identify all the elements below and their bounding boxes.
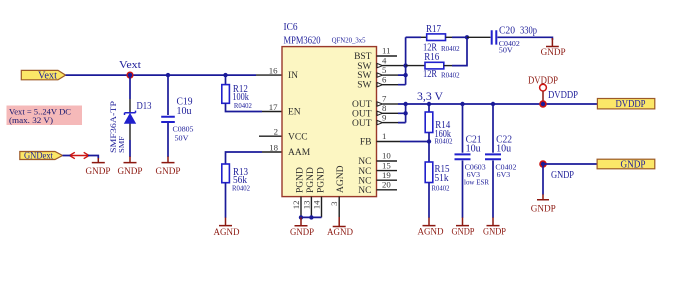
svg-text:16: 16 <box>269 65 278 75</box>
pin 1 FB <box>377 141 401 143</box>
pin 20 NC <box>377 189 398 191</box>
svg-text:AGND: AGND <box>214 227 240 237</box>
svg-text:IN: IN <box>288 71 298 81</box>
svg-text:GNDP: GNDP <box>290 227 314 237</box>
svg-text:13: 13 <box>301 200 311 209</box>
svg-text:GNDP: GNDP <box>86 166 111 176</box>
ground GNDP (PGND) <box>290 217 314 237</box>
pin 16 line <box>256 74 282 76</box>
svg-text:AGND: AGND <box>418 227 444 237</box>
svg-text:SW: SW <box>357 81 371 91</box>
wire D13 to ground <box>129 140 131 157</box>
svg-text:10: 10 <box>382 151 391 161</box>
svg-text:GNDP: GNDP <box>156 166 181 176</box>
node Vext <box>119 60 141 79</box>
pin 18 line <box>262 151 282 153</box>
ground GNDP (C20) <box>541 38 566 57</box>
resistor R12 <box>222 75 262 111</box>
pin 5 SW <box>383 74 399 76</box>
svg-text:D13: D13 <box>137 101 152 112</box>
wire PGND bus <box>301 216 322 218</box>
wire GNDext to ground <box>63 156 99 159</box>
svg-text:4: 4 <box>382 55 387 65</box>
ground AGND (R15) <box>418 218 444 237</box>
svg-text:OUT: OUT <box>352 119 372 129</box>
pin 8 OUT <box>383 112 399 114</box>
svg-text:Vext: Vext <box>119 60 141 71</box>
ground AGND (pin 3) <box>327 217 353 237</box>
svg-text:6V3: 6V3 <box>497 171 511 179</box>
port GNDP <box>597 159 655 170</box>
svg-text:R0402: R0402 <box>441 45 460 53</box>
wire OUT 3.3V rail <box>398 104 597 123</box>
pin 11 BST <box>377 55 398 57</box>
red double arrow on GNDext wire <box>70 152 90 158</box>
svg-text:SMF: SMF <box>118 136 126 153</box>
svg-text:BST: BST <box>354 52 372 62</box>
svg-text:SW: SW <box>357 71 371 81</box>
svg-text:GNDP: GNDP <box>551 170 574 181</box>
wire FB <box>400 141 429 143</box>
svg-text:R16: R16 <box>424 52 439 63</box>
svg-text:PGND: PGND <box>317 167 327 193</box>
svg-text:NC: NC <box>358 167 371 177</box>
wire Vext to D13 <box>129 75 131 99</box>
testpoint DVDDP <box>528 76 558 101</box>
svg-text:(max. 32 V): (max. 32 V) <box>9 115 53 125</box>
svg-text:IC6: IC6 <box>284 22 298 33</box>
junction R12 <box>223 73 227 77</box>
svg-text:GNDP: GNDP <box>452 227 475 237</box>
pin 2 stub <box>259 135 282 137</box>
svg-text:DVDDP: DVDDP <box>548 90 578 101</box>
bottom pins 12 13 14 PGND <box>291 197 322 218</box>
port GNDext <box>20 151 63 161</box>
svg-text:10u: 10u <box>177 106 192 117</box>
svg-text:GNDP: GNDP <box>483 227 506 237</box>
svg-text:Vext: Vext <box>38 70 57 81</box>
svg-text:51k: 51k <box>435 173 449 184</box>
svg-text:15: 15 <box>382 160 391 170</box>
pin 15 NC <box>377 170 398 172</box>
pin names bottom (rotated) <box>296 165 347 193</box>
svg-text:GNDext: GNDext <box>24 151 53 161</box>
svg-text:12: 12 <box>291 201 301 210</box>
pin 19 NC <box>377 179 398 181</box>
resistor R17 <box>406 24 467 54</box>
svg-text:14: 14 <box>312 200 322 209</box>
svg-text:AGND: AGND <box>327 227 353 237</box>
capacitor C20 <box>467 26 552 55</box>
svg-text:12R: 12R <box>423 69 437 80</box>
svg-text:VCC: VCC <box>288 132 308 142</box>
svg-text:PGND: PGND <box>306 167 316 193</box>
junction C19 <box>166 73 170 77</box>
svg-text:R0402: R0402 <box>234 102 252 110</box>
svg-text:10u: 10u <box>466 143 481 154</box>
IC IC6 MPM3620 body <box>282 22 377 197</box>
svg-text:3: 3 <box>329 201 339 206</box>
ground GNDP (D13) <box>118 157 143 177</box>
ground GNDP (right) <box>531 194 556 213</box>
node GNDP junction <box>539 160 574 181</box>
svg-text:EN: EN <box>288 108 301 118</box>
pin 10 NC <box>377 160 398 162</box>
svg-text:PGND: PGND <box>296 167 306 193</box>
svg-text:19: 19 <box>382 170 391 180</box>
ground GNDP (C22) <box>483 218 506 237</box>
capacitor C22 <box>485 102 517 218</box>
wire AAM to R13 <box>226 152 263 164</box>
junction R17/R16 <box>465 35 469 39</box>
ground GNDP (C21) <box>452 218 475 237</box>
resistor R13 <box>222 164 251 218</box>
capacitor C19 <box>161 75 194 157</box>
ground GNDP (C19) <box>156 157 181 177</box>
svg-text:50V: 50V <box>175 135 189 143</box>
pin 7 OUT <box>383 103 399 105</box>
node DVDDP <box>539 90 578 108</box>
info box Vext = 5..24V DC <box>7 106 83 126</box>
svg-text:SMF36A-TP: SMF36A-TP <box>109 100 118 153</box>
wire SW bus vertical <box>398 37 406 84</box>
svg-text:6: 6 <box>382 74 387 84</box>
pin names left <box>288 71 311 158</box>
svg-text:GNDP: GNDP <box>621 159 646 170</box>
svg-text:2: 2 <box>274 127 278 137</box>
svg-text:GNDP: GNDP <box>541 47 566 57</box>
pin names right <box>352 52 372 196</box>
port Vext <box>21 70 65 81</box>
pin 9 OUT <box>383 122 399 124</box>
svg-text:9: 9 <box>382 112 387 122</box>
pin 6 SW <box>383 84 399 86</box>
svg-text:AAM: AAM <box>288 148 311 158</box>
svg-text:R0402: R0402 <box>432 185 450 193</box>
svg-text:MPM3620: MPM3620 <box>284 35 321 46</box>
svg-text:R0402: R0402 <box>441 72 460 80</box>
svg-text:R17: R17 <box>426 24 441 35</box>
ground AGND (R13) <box>214 218 240 238</box>
svg-text:10u: 10u <box>496 143 511 154</box>
diode D13 <box>109 99 152 153</box>
svg-text:17: 17 <box>269 102 278 112</box>
svg-text:C20: C20 <box>499 26 515 37</box>
pin 17 line <box>262 111 282 113</box>
svg-text:GNDP: GNDP <box>531 204 556 214</box>
svg-text:QFN20_3x5: QFN20_3x5 <box>332 37 366 45</box>
resistor R15 <box>425 142 450 218</box>
svg-text:5: 5 <box>382 65 387 75</box>
svg-text:NC: NC <box>358 176 371 186</box>
svg-text:AGND: AGND <box>336 165 346 193</box>
resistor R14 <box>425 102 453 146</box>
svg-text:20: 20 <box>382 180 391 190</box>
svg-text:NC: NC <box>358 157 371 167</box>
svg-text:low ESR: low ESR <box>464 178 489 186</box>
svg-text:DVDDP: DVDDP <box>616 99 646 110</box>
svg-text:R0402: R0402 <box>435 138 453 146</box>
svg-text:GNDP: GNDP <box>118 166 143 176</box>
svg-text:50V: 50V <box>499 47 513 55</box>
wire GNDP to port and ground <box>543 164 597 195</box>
svg-text:1: 1 <box>382 131 386 141</box>
svg-text:FB: FB <box>360 138 372 148</box>
svg-text:NC: NC <box>358 186 371 196</box>
svg-text:18: 18 <box>269 143 278 153</box>
wire Vext main rail to IN <box>66 74 256 76</box>
svg-text:C0805: C0805 <box>173 126 195 134</box>
pin 4 SW <box>383 65 406 67</box>
svg-text:330p: 330p <box>520 26 537 37</box>
capacitor C21 <box>455 102 490 218</box>
pin 3 AGND <box>329 197 339 218</box>
ground GNDP (GNDext) <box>86 158 111 176</box>
resistor R16 <box>406 37 467 80</box>
svg-text:11: 11 <box>382 46 390 56</box>
port DVDDP <box>597 99 654 111</box>
svg-text:R0402: R0402 <box>232 185 250 193</box>
svg-text:3,3 V: 3,3 V <box>417 89 443 103</box>
